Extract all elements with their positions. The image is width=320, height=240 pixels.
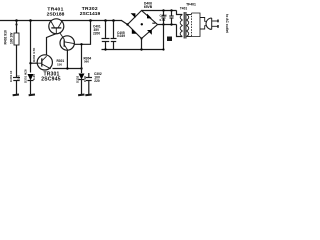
capacitor C401 [102, 21, 110, 50]
wire bus to bridge corner [122, 21, 128, 25]
svg-text:9.1V: 9.1V [83, 76, 87, 82]
diode D406d [147, 30, 152, 35]
svg-text:C406: C406 [160, 13, 168, 17]
wire bridge right to transformer [158, 24, 177, 26]
svg-text:2SC945: 2SC945 [41, 76, 61, 82]
node J14 [80, 43, 82, 45]
capacitor C302 [86, 73, 92, 94]
wire base TR301 [31, 62, 38, 64]
wire TR401 base to TR301 collector [47, 34, 57, 57]
winding secondary [180, 15, 182, 37]
wire primary top lead [187, 14, 192, 16]
capacitor C301 [13, 73, 20, 95]
svg-text:2SC1419: 2SC1419 [80, 11, 101, 17]
enclosure box [192, 13, 201, 37]
zener D301 [28, 74, 34, 94]
node J1b [15, 23, 17, 25]
node bridge center [141, 23, 143, 25]
resistor R402 [14, 21, 19, 73]
node base TR301 [29, 62, 31, 64]
capacitor C406 [161, 11, 165, 25]
node J13 [170, 23, 172, 25]
svg-text:TF401: TF401 [186, 2, 196, 6]
diode D406c [132, 29, 137, 34]
wire cord bottom [200, 26, 207, 29]
diode D406b [147, 14, 152, 19]
svg-text:65VB: 65VB [144, 5, 153, 9]
wire primary bottom lead [187, 36, 192, 38]
wire R302 branch vertical [30, 21, 32, 73]
ground G4 [85, 94, 91, 97]
node J6 [66, 67, 68, 69]
node J2 [29, 19, 32, 22]
svg-text:100: 100 [17, 75, 21, 80]
wire bridge bottom to rail [141, 39, 143, 50]
transistor TR301 [37, 55, 52, 70]
node J4 [104, 19, 107, 22]
svg-text:2SD188: 2SD188 [47, 11, 65, 17]
wire AC side drop to rail [163, 25, 165, 50]
svg-text:6.2V: 6.2V [32, 74, 36, 80]
node J1 [15, 19, 18, 22]
svg-text:to AC outlet: to AC outlet [225, 14, 229, 33]
wire TR302 emitter down [66, 50, 68, 68]
svg-text:R302 4.7K: R302 4.7K [32, 47, 36, 62]
diode D406a [131, 13, 136, 18]
transformer T401 [177, 11, 201, 39]
wire bottom rail [102, 49, 164, 51]
node bridge left [126, 23, 128, 25]
wire bottom bus [53, 68, 82, 70]
wire TR302 right lead to bus [74, 21, 90, 45]
svg-text:0.01: 0.01 [160, 18, 166, 22]
svg-text:100 1W: 100 1W [10, 32, 14, 44]
core [184, 12, 186, 39]
fuse F401 [167, 37, 172, 42]
node J7 [80, 67, 82, 69]
wire secondary bottom lead [177, 25, 183, 37]
svg-text:2200: 2200 [93, 32, 100, 36]
svg-text:0.039: 0.039 [117, 34, 125, 38]
ground G3 [78, 94, 84, 97]
node J10 [162, 9, 164, 11]
transistor TR401 [49, 19, 64, 34]
node J15 [162, 48, 164, 50]
wire top output bus [0, 20, 122, 22]
node J9 [140, 48, 142, 50]
svg-text:R402 910: R402 910 [4, 30, 8, 44]
capacitor C407 [169, 11, 173, 25]
node J11 [170, 9, 172, 11]
ground G2 [29, 94, 35, 97]
svg-text:D302: D302 [75, 75, 79, 83]
node J3 [89, 19, 92, 22]
zener D302 [79, 74, 85, 95]
wire D302 branch [81, 44, 83, 73]
capacitor C405 [111, 21, 117, 50]
wire secondary top lead [177, 11, 183, 15]
svg-text:150: 150 [57, 62, 62, 66]
wire cord top [200, 18, 207, 22]
svg-text:C301 10: C301 10 [9, 70, 13, 82]
wire bridge top to transformer [142, 10, 177, 12]
diode bar near bridge right corner [152, 22, 155, 24]
winding primary [187, 15, 189, 37]
node J8 [104, 48, 106, 50]
plug P401 [206, 18, 218, 29]
node bridge bottom [140, 37, 142, 39]
node J5 [112, 19, 115, 22]
svg-text:D301 HZ6: D301 HZ6 [24, 69, 28, 83]
svg-text:220: 220 [94, 79, 100, 83]
svg-text:560: 560 [84, 60, 89, 64]
bridge rectifier D406 [128, 11, 158, 39]
node J12 [162, 23, 164, 25]
svg-text:T401: T401 [180, 6, 187, 10]
transistor TR302 [60, 32, 75, 50]
ground G1 [13, 94, 19, 97]
